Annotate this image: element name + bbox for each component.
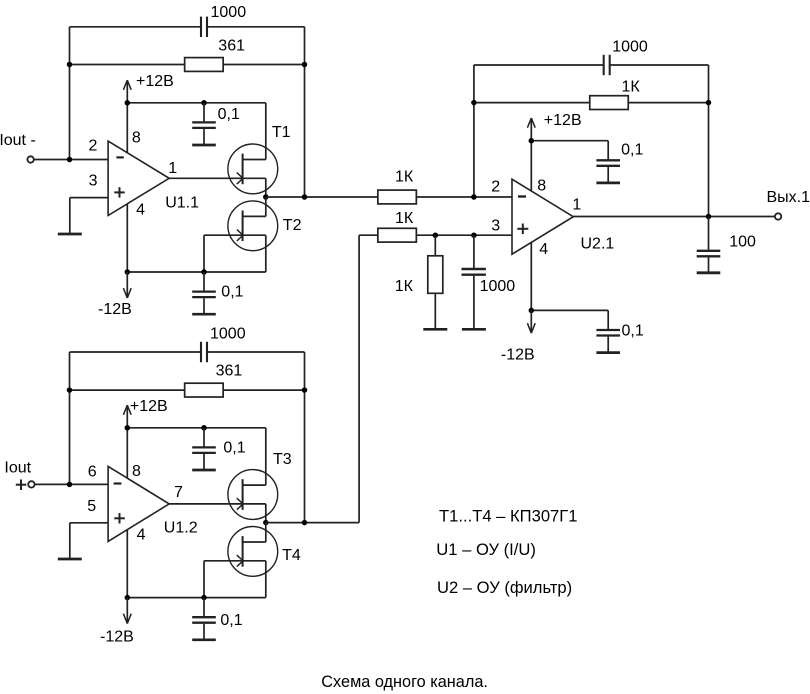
svg-text:2: 2 <box>491 179 500 196</box>
wire 1K to pin3 <box>416 234 512 236</box>
wire riser to U2 pin3 <box>358 235 360 522</box>
svg-text:1: 1 <box>168 160 177 177</box>
svg-text:1000: 1000 <box>612 39 648 56</box>
label 4 <box>539 241 548 258</box>
label plus (Iout+) <box>16 480 26 491</box>
node junction right 361 row (U1.2) <box>302 387 308 393</box>
svg-text:Схема одного канала.: Схема одного канала. <box>321 673 488 691</box>
svg-text:T1: T1 <box>272 124 291 141</box>
svg-text:U1.2: U1.2 <box>164 519 198 536</box>
ground shunt cap <box>462 328 486 331</box>
label +12V <box>130 398 168 415</box>
capacitor 1000 (U1.2 feedback) <box>201 342 207 362</box>
svg-text:4: 4 <box>137 527 146 544</box>
svg-text:1000: 1000 <box>211 4 247 21</box>
wire pin4 supply <box>126 204 128 272</box>
node feedback takeoff <box>302 194 308 200</box>
wire left feedback vertical (U2.1) <box>473 65 475 197</box>
wire left feedback vertical (U1.2) <box>69 352 71 484</box>
svg-text:Iout -: Iout - <box>0 132 36 149</box>
wire +12V rail (U1.2) <box>127 428 265 485</box>
caption <box>321 673 488 691</box>
wire -12V rail (U1.1) <box>127 271 265 273</box>
svg-text:U1 – ОУ (I/U): U1 – ОУ (I/U) <box>436 540 536 559</box>
node junction left 1K row <box>471 100 477 106</box>
wire feedback resistor row (U2.1) <box>474 102 709 104</box>
wire pin8 supply (U1.2) <box>126 428 128 479</box>
svg-text:5: 5 <box>87 498 96 515</box>
wire output row to 1K <box>266 196 378 198</box>
node +12V rail pin8 (U2.1) <box>529 138 535 144</box>
node junction left 361 row <box>67 62 73 68</box>
op-amp U2.1 minus sign <box>518 195 526 197</box>
wire top feedback (U1.1) <box>70 26 305 28</box>
svg-text:0,1: 0,1 <box>223 440 245 457</box>
svg-text:1К: 1К <box>622 79 641 96</box>
svg-text:Вых.1: Вых.1 <box>767 189 810 206</box>
svg-text:3: 3 <box>491 217 500 234</box>
label 1K <box>622 79 641 96</box>
svg-text:1: 1 <box>572 197 581 214</box>
svg-text:T3: T3 <box>273 451 292 468</box>
transistor T1 <box>228 144 278 194</box>
wire pin5 to ground <box>70 523 108 559</box>
node -12V rail pin4 (U1.2) <box>125 595 131 601</box>
wire feedback resistor row (U1.1) <box>70 64 305 66</box>
label 4 <box>137 527 146 544</box>
wire pin4 supply (U1.2) <box>126 530 128 598</box>
transistor T4 <box>228 527 278 577</box>
wire 1K to pin2 <box>416 196 512 198</box>
power -12V arrow (U2.1) <box>527 310 535 333</box>
wire T4 drain rise <box>265 523 267 542</box>
note U2 role <box>437 578 572 597</box>
svg-text:0,1: 0,1 <box>220 612 242 629</box>
node feedback takeoff (U1.2) <box>302 520 308 526</box>
op-amp U1.1 <box>108 141 169 215</box>
terminal Vyh.1 <box>775 213 781 219</box>
ground pin3 (U1.1) <box>58 233 82 236</box>
wire top feedback (U2.1) <box>474 64 709 66</box>
label 1000 <box>210 326 246 343</box>
node -12V rail pin4 (U2.1) <box>529 308 535 314</box>
node feedback to pin2 <box>471 194 477 200</box>
label 1 <box>572 197 581 214</box>
label 361 <box>216 362 243 379</box>
svg-text:2: 2 <box>89 138 98 155</box>
svg-text:1К: 1К <box>395 169 414 186</box>
svg-text:361: 361 <box>218 37 245 54</box>
wire right feedback vertical (U2.1) <box>708 65 710 217</box>
node -12V rail cap (U1.2) <box>201 595 207 601</box>
label 3 <box>491 217 500 234</box>
note U1 role <box>436 540 536 559</box>
label T4 <box>282 547 301 564</box>
node Iout+ junction <box>67 482 73 488</box>
wire pin6 input <box>35 483 109 485</box>
wire +12V rail (U2.1) <box>531 140 608 142</box>
op-amp U2.1 <box>512 179 573 254</box>
svg-text:U1.1: U1.1 <box>165 195 199 212</box>
label 100 <box>729 234 756 251</box>
label 1 <box>168 160 177 177</box>
node +12V rail pin8 (U1.2) <box>125 425 131 431</box>
label U1.2 <box>164 519 198 536</box>
label 1K <box>395 210 414 227</box>
wire T2 drain rise <box>265 197 267 216</box>
wire riser corner to 1K (pin3 row) <box>359 234 378 236</box>
label 1K <box>395 169 414 186</box>
wire T2 gate to -12V rail <box>204 235 243 272</box>
label 2 <box>89 138 98 155</box>
node -12V rail cap <box>201 269 207 275</box>
wire shunt 1K to ground <box>434 293 436 329</box>
label T2 <box>283 217 302 234</box>
capacitor 1000 (U1.1 feedback) <box>201 17 207 37</box>
power +12V arrow (U2.1) <box>527 118 535 141</box>
label 8 <box>132 130 141 147</box>
svg-text:-12В: -12В <box>100 629 134 646</box>
wire T1 source drop <box>265 178 267 197</box>
capacitor 0,1 (+12V U1.1) <box>192 103 216 145</box>
label 5 <box>87 498 96 515</box>
svg-text:0,1: 0,1 <box>622 323 644 340</box>
svg-text:6: 6 <box>88 464 97 481</box>
svg-text:U2 – ОУ (фильтр): U2 – ОУ (фильтр) <box>437 578 572 597</box>
wire pin8 supply (U2.1) <box>530 141 532 191</box>
svg-text:+12В: +12В <box>136 73 174 90</box>
label 4 <box>136 202 145 219</box>
svg-text:-12В: -12В <box>501 346 535 363</box>
power -12V arrow (U1.1) <box>123 272 131 298</box>
note transistors type <box>439 507 578 526</box>
svg-text:3: 3 <box>89 173 98 190</box>
resistor 1K (shunt to ground) <box>428 256 443 293</box>
wire T3 source drop <box>265 504 267 523</box>
op-amp U2.1 plus sign <box>517 224 528 235</box>
wire top feedback (U1.2) <box>70 351 305 353</box>
wire pin8 supply <box>126 103 128 153</box>
capacitor 100 (output) <box>697 251 721 272</box>
op-amp U1.1 plus sign <box>114 187 124 197</box>
label +12V <box>544 112 582 129</box>
svg-text:7: 7 <box>174 484 183 501</box>
svg-text:-12В: -12В <box>98 301 132 318</box>
wire op-amp output to gates (U1.2) <box>169 503 242 505</box>
node pin3 shunt resistor <box>433 232 439 238</box>
wire output cap lead <box>708 217 710 250</box>
node Iout- junction <box>67 157 73 163</box>
label +12V <box>136 73 174 90</box>
label 1000 <box>211 4 247 21</box>
wire left feedback vertical <box>69 27 71 160</box>
label Iout <box>4 460 31 477</box>
label 0,1 <box>220 612 242 629</box>
label 3 <box>89 173 98 190</box>
svg-text:1К: 1К <box>395 278 414 295</box>
node -12V rail pin4 <box>125 269 131 275</box>
svg-text:100: 100 <box>729 234 756 251</box>
wire T4 source drop <box>265 561 267 598</box>
label 0,1 <box>218 106 240 123</box>
label -12V <box>100 629 134 646</box>
wire -12V rail (U1.2) <box>127 597 265 599</box>
label -12V <box>501 346 535 363</box>
node junction right 1K row <box>706 100 712 106</box>
node output junction <box>706 214 712 220</box>
resistor 361 (U1.1 feedback) <box>185 58 224 72</box>
label 0,1 <box>622 323 644 340</box>
wire shunt 1K lead <box>434 235 436 256</box>
svg-text:+12В: +12В <box>130 398 168 415</box>
capacitor 1000 (shunt to ground) <box>462 269 486 275</box>
power +12V arrow (U1.1) <box>123 80 131 103</box>
svg-text:1000: 1000 <box>210 326 246 343</box>
resistor 1K (U2.1 feedback) <box>590 96 629 110</box>
node T1/T2 junction <box>263 194 269 200</box>
label 1000 <box>612 39 648 56</box>
wire shunt cap lead <box>473 235 475 329</box>
label T1 <box>272 124 291 141</box>
label 7 <box>174 484 183 501</box>
label U1.1 <box>165 195 199 212</box>
ground bar capacitor 100 <box>697 271 721 274</box>
svg-text:1000: 1000 <box>480 278 516 295</box>
svg-text:8: 8 <box>132 130 141 147</box>
label 0,1 <box>221 284 243 301</box>
wire T2 source drop <box>265 235 267 272</box>
label Vyh.1 <box>767 189 810 206</box>
terminal Iout- <box>27 156 33 162</box>
capacitor 0,1 (-12V U1.1) <box>192 272 216 314</box>
op-amp U1.1 minus sign <box>116 156 123 158</box>
node junction right 361 row <box>302 62 308 68</box>
resistor 1K (input pin2) <box>378 190 417 204</box>
node +12V rail pin8 <box>125 100 131 106</box>
svg-text:+12В: +12В <box>544 112 582 129</box>
op-amp U1.2 <box>108 466 169 541</box>
capacitor 0,1 (-12V U1.2) <box>192 598 216 640</box>
label 2 <box>491 179 500 196</box>
capacitor 1000 (U2.1 feedback) <box>604 55 610 75</box>
capacitor 0,1 (+12V U1.2) <box>192 428 216 470</box>
svg-text:0,1: 0,1 <box>218 106 240 123</box>
svg-text:361: 361 <box>216 362 243 379</box>
wire T4 gate to -12V rail <box>204 561 243 598</box>
svg-text:8: 8 <box>132 463 141 480</box>
svg-text:8: 8 <box>537 177 546 194</box>
svg-text:U2.1: U2.1 <box>581 235 615 252</box>
wire pin4 supply (U2.1) <box>530 242 532 310</box>
svg-text:0,1: 0,1 <box>221 284 243 301</box>
svg-text:T4: T4 <box>282 547 301 564</box>
label Iout - <box>0 132 36 149</box>
wire op-amp output to gates <box>169 177 242 179</box>
power -12V arrow (U1.2) <box>123 598 131 624</box>
resistor 1K (input pin3) <box>378 228 417 242</box>
label 1K <box>395 278 414 295</box>
svg-text:1К: 1К <box>395 210 414 227</box>
wire pin2 input <box>34 159 108 161</box>
wire right feedback vertical (U1.2) <box>304 352 306 523</box>
svg-text:4: 4 <box>136 202 145 219</box>
wire pin3 to ground <box>70 198 108 234</box>
node T3/T4 junction <box>263 520 269 526</box>
label -12V <box>98 301 132 318</box>
transistor T3 <box>228 470 278 520</box>
transistor T2 <box>228 201 278 251</box>
wire output (U2.1) <box>573 216 775 218</box>
wire -12V rail (U2.1) <box>531 309 608 311</box>
power +12V arrow (U1.2) <box>123 405 131 428</box>
node +12V rail cap <box>201 100 207 106</box>
svg-text:Iout: Iout <box>4 460 31 477</box>
node junction left 361 row (U1.2) <box>67 387 73 393</box>
label 0,1 <box>223 440 245 457</box>
node +12V rail cap (U1.2) <box>201 425 207 431</box>
resistor 361 (U1.2 feedback) <box>185 383 224 397</box>
capacitor 0,1 (+12V U2.1) <box>596 141 620 183</box>
op-amp U1.2 plus sign <box>114 513 125 523</box>
svg-text:0,1: 0,1 <box>621 141 643 158</box>
label 8 <box>132 463 141 480</box>
label U2.1 <box>581 235 615 252</box>
wire right feedback vertical <box>304 27 306 197</box>
svg-text:4: 4 <box>539 241 548 258</box>
wire +12V rail (U1.1) <box>127 103 265 160</box>
label 8 <box>537 177 546 194</box>
label 361 <box>218 37 245 54</box>
op-amp U1.2 minus sign <box>114 482 122 484</box>
capacitor 0,1 (-12V U2.1) <box>596 310 620 352</box>
svg-text:T2: T2 <box>283 217 302 234</box>
svg-text:T1...T4 – КП307Г1: T1...T4 – КП307Г1 <box>439 507 578 526</box>
label 0,1 <box>621 141 643 158</box>
ground shunt 1K <box>423 328 447 331</box>
label 1000 <box>480 278 516 295</box>
wire feedback resistor row (U1.2) <box>70 389 305 391</box>
ground pin5 (U1.2) <box>58 558 82 561</box>
node pin3 shunt cap <box>471 232 477 238</box>
wire junction row to U2 riser <box>266 522 359 524</box>
terminal Iout+ <box>28 481 34 487</box>
label 6 <box>88 464 97 481</box>
label T3 <box>273 451 292 468</box>
